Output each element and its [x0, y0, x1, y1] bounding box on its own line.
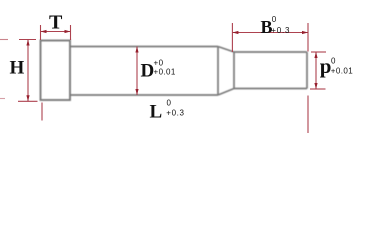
svg-text:L: L [150, 102, 163, 123]
svg-text:H: H [10, 58, 25, 79]
svg-text:0: 0 [331, 56, 336, 65]
svg-text:+0.3: +0.3 [271, 26, 290, 35]
svg-text:T: T [49, 12, 63, 34]
svg-text:+0: +0 [154, 59, 164, 68]
svg-text:D: D [141, 61, 155, 82]
svg-text:p: p [320, 54, 332, 78]
svg-text:0: 0 [167, 99, 172, 108]
svg-text:+0.01: +0.01 [154, 68, 176, 77]
svg-text:+0.3: +0.3 [166, 109, 184, 118]
svg-text:0: 0 [272, 15, 277, 24]
svg-text:+0.01: +0.01 [331, 67, 353, 76]
